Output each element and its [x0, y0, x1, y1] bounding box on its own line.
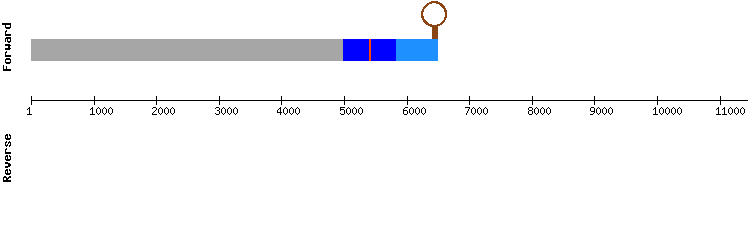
- tick label 5000: [340, 107, 363, 115]
- major tick 7000: [469, 96, 470, 105]
- major tick 11000: [720, 96, 721, 105]
- tick label 7000: [465, 107, 488, 115]
- major tick 6000: [407, 96, 408, 105]
- major tick 5000: [344, 96, 345, 105]
- major tick 9000: [594, 96, 595, 105]
- tick label 11000: [716, 107, 745, 115]
- major tick 4000: [281, 96, 282, 105]
- red marker line: [369, 39, 371, 61]
- Reverse track label: [3, 134, 11, 182]
- lollipop stem: [432, 26, 438, 39]
- Forward track label: [2, 23, 11, 71]
- major tick 8000: [532, 96, 533, 105]
- blue CDS bar: [343, 39, 396, 61]
- lollipop circle: [421, 1, 447, 27]
- tick label 6000: [403, 107, 426, 115]
- major tick 1000: [94, 96, 95, 105]
- gray UTR bar: [31, 39, 343, 61]
- dodgerblue CDS bar: [396, 39, 438, 61]
- tick label 10000: [653, 107, 682, 115]
- major tick 1: [31, 96, 32, 105]
- tick label 8000: [528, 107, 551, 115]
- major tick 10000: [657, 96, 658, 105]
- tick label 4000: [277, 107, 300, 115]
- major tick 3000: [219, 96, 220, 105]
- ruler axis line: [31, 100, 748, 101]
- tick label 1: [27, 107, 32, 115]
- tick label 1000: [90, 107, 113, 115]
- tick label 9000: [590, 107, 613, 115]
- tick label 2000: [152, 107, 175, 115]
- tick label 3000: [215, 107, 238, 115]
- major tick 2000: [156, 96, 157, 105]
